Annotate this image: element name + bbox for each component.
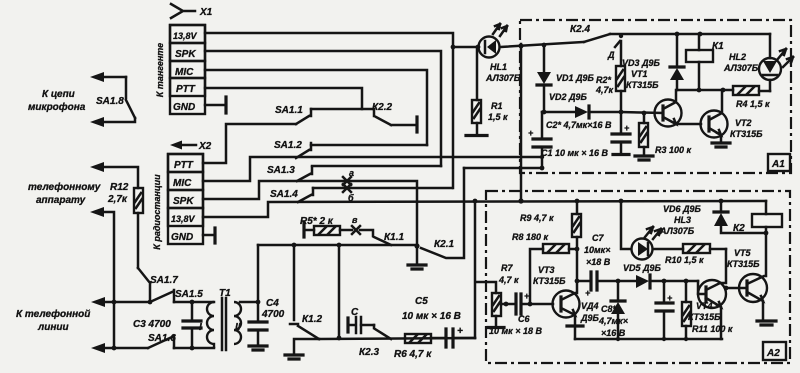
ground at K1.2	[294, 339, 319, 354]
LED HL2	[723, 34, 793, 91]
svg-text:Д: Д	[607, 50, 615, 60]
svg-text:1,5 к: 1,5 к	[488, 112, 508, 122]
svg-text:К1.2: К1.2	[302, 314, 322, 325]
svg-text:R4 1,5 к: R4 1,5 к	[736, 99, 770, 109]
wire: supply riser into A1	[520, 44, 523, 202]
svg-text:I: I	[199, 322, 202, 333]
node: dot on 13,8V riser	[451, 45, 456, 50]
svg-text:VD5 Д9Б: VD5 Д9Б	[623, 263, 662, 273]
node: dots on 13,8V bus	[473, 199, 478, 204]
svg-text:+: +	[528, 128, 534, 138]
svg-text:А1: А1	[771, 159, 785, 170]
wire: X1 PTT row down to SA1.1 contact line	[205, 88, 362, 109]
svg-text:К радиостанции: К радиостанции	[152, 174, 162, 250]
label: К телефонной линии	[16, 308, 90, 333]
diode VD2	[549, 92, 589, 118]
svg-text:GND: GND	[171, 232, 193, 243]
switch SA1.8	[96, 77, 135, 118]
LED HL3	[632, 204, 702, 260]
contact K2.1	[421, 168, 464, 258]
wire: A2 ground rail	[575, 338, 722, 341]
svg-text:КТ315Б: КТ315Б	[688, 312, 721, 322]
node: VT3 collector tap	[575, 279, 580, 284]
svg-text:микрофона: микрофона	[28, 101, 86, 113]
label: К цепи микрофона	[28, 89, 86, 113]
svg-text:SPK: SPK	[173, 196, 194, 207]
svg-text:VД4: VД4	[581, 301, 599, 311]
wire: phone-apparatus upper arrow to R12	[98, 167, 138, 188]
svg-text:НL3: НL3	[674, 215, 691, 225]
svg-text:К2.1: К2.1	[434, 239, 454, 250]
wire: SA1.2 contact to MIC riser	[311, 144, 427, 147]
node: dots on detector line	[616, 279, 621, 284]
switch SA1.3	[267, 165, 312, 181]
svg-text:10 мк × 18 В: 10 мк × 18 В	[489, 326, 542, 336]
resistor R6	[394, 334, 432, 360]
contact K1.1	[360, 230, 404, 245]
svg-text:+: +	[624, 123, 630, 133]
capacitor C7	[584, 233, 636, 298]
diode VD5	[623, 263, 698, 288]
wire: X2 MIC row up to SA1.2 pivot, continuing right to C1 drop	[203, 157, 542, 181]
svg-text:VD2 Д9Б: VD2 Д9Б	[549, 92, 588, 102]
capacitor C2*	[546, 112, 630, 155]
svg-text:SA1.1: SA1.1	[275, 105, 303, 116]
wire: VD2 line	[542, 111, 621, 114]
svg-text:R8 180 к: R8 180 к	[512, 232, 549, 242]
wire: T1 winding II top up to C4 rail	[240, 245, 258, 302]
diode VD6	[714, 201, 768, 235]
svg-text:R9 4,7 к: R9 4,7 к	[520, 213, 554, 223]
resistor R9	[520, 201, 581, 249]
wire: HL3 riser	[621, 201, 631, 249]
svg-text:АЛ307Б: АЛ307Б	[485, 73, 521, 83]
node: rail junction	[337, 336, 342, 341]
contact K1.2	[290, 245, 322, 339]
contact K2.3	[359, 325, 391, 358]
diode VD4	[580, 281, 625, 339]
svg-text:X2: X2	[198, 141, 212, 152]
svg-text:+: +	[585, 288, 591, 298]
svg-text:КТ315Б: КТ315Б	[727, 259, 760, 269]
ground bar under R1	[466, 134, 487, 137]
svg-text:13,8V: 13,8V	[173, 31, 198, 41]
wire: A1 input node rail to C1	[464, 167, 542, 170]
wire: X1 13,8V row to riser	[205, 33, 453, 188]
svg-text:С2* 4,7мк×16 В: С2* 4,7мк×16 В	[546, 120, 612, 130]
svg-text:4,7к: 4,7к	[595, 85, 614, 95]
svg-text:SA1.5: SA1.5	[175, 289, 203, 300]
terminal bar X1 GND	[224, 97, 227, 113]
connector X1 block	[170, 25, 205, 114]
connector X2 symbol	[170, 141, 212, 153]
capacitor C6	[489, 291, 553, 336]
capacitor C4	[249, 298, 285, 345]
svg-text:VТ3: VТ3	[538, 265, 555, 275]
contact K2.4	[570, 24, 610, 42]
transistor VT3	[533, 249, 583, 339]
node: dots C1	[540, 155, 544, 159]
svg-text:R11 100 к: R11 100 к	[692, 324, 733, 334]
node: R1 tap dot	[476, 45, 481, 50]
svg-text:PTT: PTT	[176, 84, 196, 95]
svg-text:С7: С7	[592, 233, 604, 243]
wire: phone line upper with arrow	[99, 301, 150, 304]
wire: HL1 to K2.4	[500, 42, 584, 47]
switch SA1.4	[270, 188, 313, 202]
svg-text:4,7мк×: 4,7мк×	[598, 316, 629, 326]
module A2 boundary box	[486, 191, 790, 363]
svg-text:MIC: MIC	[175, 67, 194, 78]
svg-text:К цепи: К цепи	[42, 89, 75, 100]
link point b	[343, 184, 354, 203]
switch SA1.7	[138, 268, 178, 302]
module A1 tag	[768, 154, 790, 171]
resistor R10	[653, 244, 726, 265]
svg-text:×16 В: ×16 В	[601, 328, 626, 338]
node: C3 junction dots	[190, 300, 195, 305]
wire: X1 GND stub	[205, 104, 226, 107]
svg-text:К2.4: К2.4	[570, 24, 590, 35]
wire: bus drop to R7 input	[475, 201, 496, 338]
svg-text:SA1.8: SA1.8	[96, 96, 124, 107]
ground at K1.1 junction	[416, 246, 419, 264]
resistor R5* with terminal	[300, 216, 352, 237]
svg-text:R5* 2 к: R5* 2 к	[300, 216, 334, 227]
wire: phone-apparatus lower arrow down left rail	[98, 212, 114, 348]
node: dots on VD2 line	[542, 110, 547, 115]
svg-text:а: а	[349, 168, 354, 178]
svg-text:+: +	[667, 293, 673, 303]
svg-text:13,8V: 13,8V	[171, 214, 196, 224]
svg-text:R2*: R2*	[596, 75, 612, 85]
diode VD1	[537, 45, 595, 112]
capacitor C8*	[598, 281, 673, 339]
connector X1 symbol	[171, 4, 213, 18]
node: dots on A1 top rail	[675, 32, 680, 37]
wire: K2.4 to relay node rail	[610, 33, 770, 36]
svg-text:4700: 4700	[261, 309, 285, 320]
switch SA1.1	[275, 105, 311, 124]
wire: SA1.5 contact to T1 winding I top	[174, 301, 214, 304]
svg-text:КТ315Б: КТ315Б	[533, 276, 566, 286]
transformer T1	[199, 288, 241, 350]
wire: drop from C4 rail to audio rail	[338, 245, 341, 338]
node: junction dots on C4 rail	[292, 243, 297, 248]
svg-text:R3 100 к: R3 100 к	[655, 145, 692, 155]
svg-text:С: С	[351, 307, 359, 318]
svg-text:PTT: PTT	[174, 160, 194, 171]
svg-text:телефонному: телефонному	[28, 181, 101, 193]
relay K1	[686, 34, 724, 90]
wire: X1 MIC row to riser	[205, 70, 427, 145]
svg-text:АЛ307Б: АЛ307Б	[659, 226, 695, 236]
wire: X2 13,8V row up to SA1.4 pivot and long supply bus	[203, 201, 766, 217]
svg-text:10мк×: 10мк×	[584, 245, 611, 255]
svg-text:аппарату: аппарату	[36, 195, 86, 206]
svg-text:+: +	[457, 326, 463, 337]
svg-text:X1: X1	[199, 7, 213, 18]
terminal bar X2 GND	[213, 228, 216, 243]
ground under R3	[635, 156, 653, 160]
node: dot VD1 top	[542, 43, 547, 48]
wire: SA1.3 contact to SPK riser	[312, 165, 441, 168]
ground below C4	[249, 346, 267, 350]
capacitor C with terminal	[348, 307, 374, 333]
node: junction dot phone lower	[112, 346, 117, 351]
svg-text:в: в	[352, 215, 358, 225]
wire: phone line lower with arrow	[99, 347, 148, 350]
wire: C4 node rail to K1.1 junction	[258, 244, 417, 247]
label: телефонному аппарату	[28, 181, 101, 206]
wire: X2 SPK row up to SA1.3 pivot, continuing right through link a to center riser	[203, 181, 417, 246]
LED HL1	[479, 24, 521, 83]
transistor VT5	[726, 233, 767, 320]
resistor R11	[682, 281, 733, 339]
svg-text:2,7к: 2,7к	[107, 194, 128, 205]
svg-text:VD1 Д9Б: VD1 Д9Б	[556, 73, 595, 83]
module A2 tag	[763, 342, 786, 360]
node: R2 top dot on K2.4 rail	[619, 34, 623, 38]
resistor R8	[512, 232, 579, 304]
wire: R7 node to C6	[501, 303, 516, 306]
resistor R12	[107, 182, 143, 213]
transistor VT2	[701, 90, 764, 142]
wire: mic circuit bottom arrow	[98, 118, 135, 122]
test point D with arrow	[607, 41, 620, 60]
module A1 boundary box	[520, 20, 791, 173]
wire: switched audio rail to C5	[319, 338, 475, 339]
wire: 13,8V tap to HL1	[454, 46, 478, 49]
svg-text:R6 4,7 к: R6 4,7 к	[394, 349, 432, 360]
svg-text:×18 В: ×18 В	[586, 257, 611, 267]
svg-text:VТ1: VТ1	[631, 69, 648, 79]
node: VT4 collector tap to VT5 base	[724, 286, 729, 291]
svg-text:SA1.4: SA1.4	[270, 189, 298, 200]
wire: VT2 collector rail	[677, 89, 733, 92]
svg-text:R10 1,5 к: R10 1,5 к	[665, 255, 704, 265]
svg-text:НL1: НL1	[490, 62, 507, 72]
svg-text:SA1.3: SA1.3	[267, 165, 295, 176]
wire: SA1.1 pivot to X2 PTT	[203, 124, 296, 163]
svg-text:С5: С5	[415, 296, 428, 307]
node: junction dots phone upper	[112, 300, 117, 305]
svg-text:MIC: MIC	[173, 178, 192, 189]
wire: collector to C7	[577, 280, 591, 283]
svg-text:линии: линии	[37, 322, 69, 333]
switch SA1.5	[150, 289, 203, 302]
svg-text:SPK: SPK	[175, 49, 196, 60]
resistor R7	[488, 263, 519, 328]
resistor R1	[472, 47, 508, 134]
svg-text:R1: R1	[491, 101, 503, 111]
svg-text:R7: R7	[501, 263, 513, 273]
svg-text:SA1.7: SA1.7	[150, 275, 178, 286]
relay K2	[733, 201, 782, 234]
svg-text:К2.3: К2.3	[359, 347, 379, 358]
wire: X2 GND stub	[203, 234, 215, 237]
resistor R2*	[595, 41, 625, 112]
diode VD3	[622, 34, 684, 90]
svg-text:VТ2: VТ2	[735, 118, 752, 128]
transistor VT1	[621, 69, 682, 127]
svg-text:GND: GND	[173, 102, 195, 113]
transistor VT4	[688, 249, 726, 339]
capacitor C3	[133, 302, 201, 348]
svg-text:К1.1: К1.1	[384, 232, 404, 243]
resistor R3	[639, 111, 692, 155]
svg-text:SA1.6: SA1.6	[148, 333, 176, 344]
svg-text:НL2: НL2	[729, 52, 746, 62]
wire: X1 SPK row to riser	[205, 51, 441, 166]
svg-text:А2: А2	[766, 348, 780, 359]
link point v	[352, 215, 360, 234]
svg-text:С1 10 мк × 16 В: С1 10 мк × 16 В	[541, 148, 609, 158]
node: dots on collector rail	[697, 88, 702, 93]
switch SA1.6	[148, 333, 176, 348]
svg-text:С4: С4	[266, 298, 279, 309]
svg-text:КТ315Б: КТ315Б	[626, 80, 659, 90]
svg-text:К2: К2	[733, 223, 745, 234]
capacitor C1	[528, 112, 609, 168]
node: dot at R8 riser	[528, 302, 533, 307]
svg-text:VD6 Д9Б: VD6 Д9Б	[663, 204, 702, 214]
node: rail dots	[616, 337, 620, 341]
node: dot at R7 output	[504, 302, 509, 307]
ground under VT2	[712, 143, 730, 147]
wire: VT1 emitter to VT2 base	[676, 123, 701, 126]
svg-text:С6: С6	[518, 314, 530, 324]
svg-text:R12: R12	[110, 182, 129, 193]
svg-text:К тангенте: К тангенте	[155, 43, 165, 97]
svg-text:II: II	[235, 322, 241, 333]
capacitor C5	[402, 296, 475, 347]
svg-text:АЛ307Б: АЛ307Б	[723, 63, 759, 73]
svg-text:VD3 Д9Б: VD3 Д9Б	[622, 58, 661, 68]
ground under VT5	[757, 321, 776, 325]
svg-text:10 мк × 16 В: 10 мк × 16 В	[402, 311, 461, 322]
svg-text:VТ4: VТ4	[696, 301, 713, 311]
svg-text:КТ315Б: КТ315Б	[730, 129, 763, 139]
svg-text:К телефонной: К телефонной	[16, 308, 90, 320]
contact K2.2	[362, 102, 417, 132]
svg-text:SA1.2: SA1.2	[274, 140, 302, 151]
node: C4 top junction	[256, 300, 261, 305]
svg-text:VТ5: VТ5	[734, 248, 752, 258]
svg-text:4,7 к: 4,7 к	[498, 275, 519, 285]
svg-text:С3 4700: С3 4700	[133, 319, 171, 330]
wire: SA1.4 contact through link b to 13,8V riser	[313, 187, 452, 190]
svg-text:Т1: Т1	[219, 288, 231, 299]
switch SA1.2	[274, 140, 311, 158]
resistor R4	[733, 86, 770, 109]
svg-text:Д9Б: Д9Б	[580, 313, 600, 323]
link point a	[343, 168, 354, 185]
svg-text:К1: К1	[712, 41, 724, 52]
wire: R12 bottom to SA1.7	[137, 213, 140, 268]
wire: mic circuit top arrow	[98, 76, 126, 79]
svg-text:К2.2: К2.2	[372, 102, 392, 113]
svg-text:С8*: С8*	[601, 304, 617, 314]
connector X2 block	[168, 154, 203, 244]
wire: SA1.6 contact to T1 winding I bottom	[174, 347, 214, 350]
